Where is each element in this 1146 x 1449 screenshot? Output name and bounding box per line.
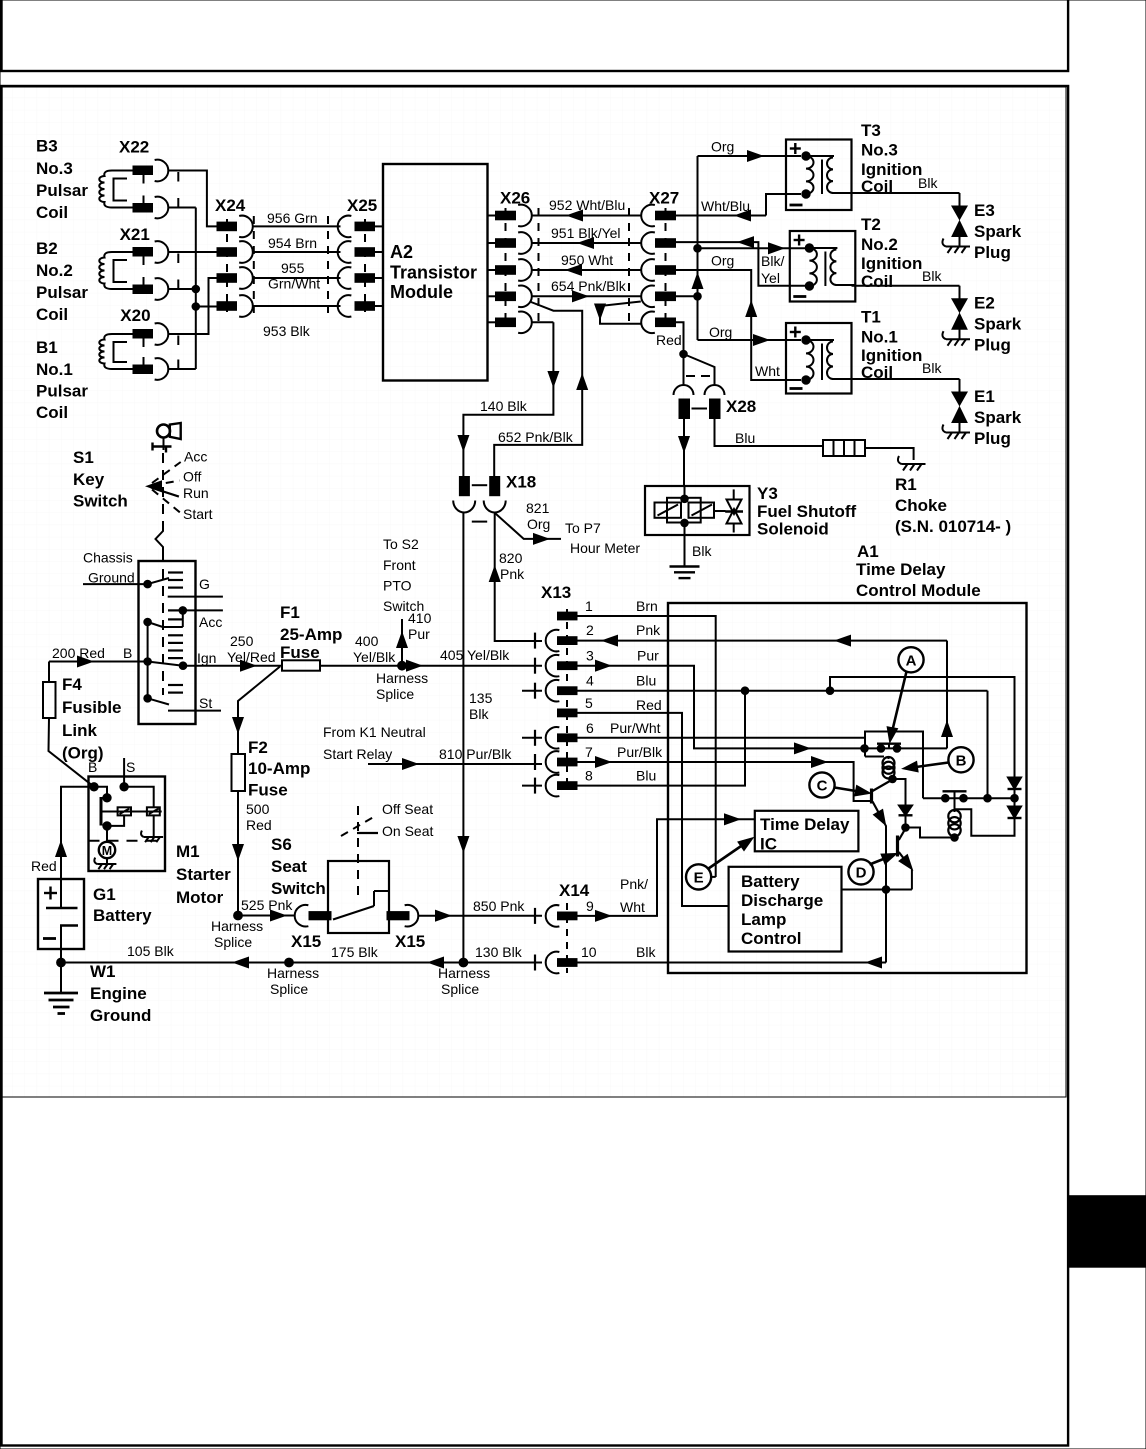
svg-text:B3: B3 <box>36 137 58 156</box>
svg-text:Choke: Choke <box>895 496 947 515</box>
svg-text:Wht/Blu: Wht/Blu <box>701 198 750 214</box>
svg-text:Org: Org <box>527 516 550 532</box>
svg-text:410: 410 <box>408 610 432 626</box>
svg-text:140 Blk: 140 Blk <box>480 398 528 414</box>
svg-text:G: G <box>199 576 210 592</box>
svg-text:Plug: Plug <box>974 429 1011 448</box>
svg-text:E1: E1 <box>974 387 995 406</box>
svg-text:Harness: Harness <box>267 965 319 981</box>
svg-text:Red: Red <box>31 858 57 874</box>
svg-text:405 Yel/Blk: 405 Yel/Blk <box>440 647 510 663</box>
svg-text:10: 10 <box>581 944 597 960</box>
svg-text:B: B <box>88 759 97 775</box>
svg-text:X28: X28 <box>726 397 756 416</box>
svg-text:Red: Red <box>656 332 682 348</box>
svg-text:Fuse: Fuse <box>280 643 320 662</box>
svg-text:No.3: No.3 <box>861 141 898 160</box>
svg-text:Spark: Spark <box>974 222 1022 241</box>
svg-text:Y3: Y3 <box>757 484 778 503</box>
svg-text:To P7: To P7 <box>565 520 601 536</box>
svg-text:654 Pnk/Blk: 654 Pnk/Blk <box>551 278 627 294</box>
svg-text:1: 1 <box>585 598 593 614</box>
svg-text:175 Blk: 175 Blk <box>331 944 379 960</box>
svg-text:Off Seat: Off Seat <box>382 801 433 817</box>
svg-text:No.2: No.2 <box>36 261 73 280</box>
svg-text:250: 250 <box>230 633 254 649</box>
svg-text:T1: T1 <box>861 308 881 327</box>
svg-text:850 Pnk: 850 Pnk <box>473 898 525 914</box>
svg-text:S1: S1 <box>73 448 94 467</box>
svg-text:F4: F4 <box>62 675 82 694</box>
svg-text:Splice: Splice <box>441 981 479 997</box>
svg-text:Engine: Engine <box>90 984 147 1003</box>
svg-text:X15: X15 <box>395 932 425 951</box>
svg-text:Fusible: Fusible <box>62 698 122 717</box>
svg-text:Blu: Blu <box>636 673 656 689</box>
svg-text:F2: F2 <box>248 738 268 757</box>
svg-text:On Seat: On Seat <box>382 823 433 839</box>
svg-text:652 Pnk/Blk: 652 Pnk/Blk <box>498 429 574 445</box>
svg-text:Switch: Switch <box>271 879 326 898</box>
svg-text:From K1 Neutral: From K1 Neutral <box>323 724 426 740</box>
svg-text:Harness: Harness <box>211 918 263 934</box>
svg-text:Pur/Blk: Pur/Blk <box>617 744 663 760</box>
svg-text:Harness: Harness <box>376 670 428 686</box>
svg-text:Front: Front <box>383 557 416 573</box>
svg-text:Pnk: Pnk <box>636 622 661 638</box>
svg-text:Plug: Plug <box>974 243 1011 262</box>
svg-text:Red: Red <box>246 817 272 833</box>
svg-text:X20: X20 <box>120 306 150 325</box>
svg-text:Splice: Splice <box>214 934 252 950</box>
svg-text:Motor: Motor <box>176 888 224 907</box>
svg-text:Pulsar: Pulsar <box>36 181 88 200</box>
svg-text:Ign: Ign <box>197 650 216 666</box>
svg-text:8: 8 <box>585 768 593 784</box>
svg-text:Fuel Shutoff: Fuel Shutoff <box>757 502 856 521</box>
svg-text:Pur/Wht: Pur/Wht <box>610 720 661 736</box>
svg-text:Hour Meter: Hour Meter <box>570 540 640 556</box>
svg-text:Red: Red <box>636 697 662 713</box>
svg-text:Battery: Battery <box>741 872 800 891</box>
svg-text:X15: X15 <box>291 932 321 951</box>
svg-text:820: 820 <box>499 550 523 566</box>
svg-text:Yel/Blk: Yel/Blk <box>353 649 396 665</box>
svg-text:Yel/Red: Yel/Red <box>227 649 276 665</box>
svg-text:No.3: No.3 <box>36 159 73 178</box>
svg-text:B1: B1 <box>36 338 58 357</box>
svg-text:950 Wht: 950 Wht <box>561 252 613 268</box>
svg-text:Pnk: Pnk <box>500 566 525 582</box>
svg-text:130 Blk: 130 Blk <box>475 944 523 960</box>
svg-text:X26: X26 <box>500 189 530 208</box>
svg-text:Link: Link <box>62 721 97 740</box>
svg-text:X24: X24 <box>215 196 246 215</box>
svg-text:Wht: Wht <box>620 899 645 915</box>
svg-text:Spark: Spark <box>974 315 1022 334</box>
svg-text:Chassis: Chassis <box>83 550 133 566</box>
svg-text:200 Red: 200 Red <box>52 645 105 661</box>
svg-text:135: 135 <box>469 690 493 706</box>
svg-text:T2: T2 <box>861 215 881 234</box>
svg-text:955: 955 <box>281 260 305 276</box>
svg-text:C: C <box>817 778 828 795</box>
svg-text:9: 9 <box>586 898 594 914</box>
svg-text:IC: IC <box>760 835 777 854</box>
svg-text:810 Pur/Blk: 810 Pur/Blk <box>439 746 512 762</box>
svg-text:Yel: Yel <box>761 270 780 286</box>
svg-text:Module: Module <box>390 282 453 302</box>
svg-text:400: 400 <box>355 633 379 649</box>
svg-text:10-Amp: 10-Amp <box>248 759 310 778</box>
svg-text:Org: Org <box>711 253 734 269</box>
svg-text:Control Module: Control Module <box>856 581 981 600</box>
svg-text:4: 4 <box>586 673 594 689</box>
svg-text:M1: M1 <box>176 842 200 861</box>
svg-text:Lamp: Lamp <box>741 910 786 929</box>
svg-text:Discharge: Discharge <box>741 891 823 910</box>
svg-text:S6: S6 <box>271 835 292 854</box>
svg-text:525 Pnk: 525 Pnk <box>241 897 293 913</box>
svg-text:X18: X18 <box>506 473 536 492</box>
svg-text:Blk: Blk <box>692 543 712 559</box>
svg-text:Time Delay: Time Delay <box>856 560 946 579</box>
svg-text:Pur: Pur <box>637 648 659 664</box>
svg-text:E2: E2 <box>974 294 995 313</box>
svg-text:E3: E3 <box>974 201 995 220</box>
svg-text:Harness: Harness <box>438 965 490 981</box>
svg-text:St: St <box>199 695 212 711</box>
svg-text:Start Relay: Start Relay <box>323 746 392 762</box>
svg-text:Blk: Blk <box>918 175 938 191</box>
svg-text:S: S <box>126 759 135 775</box>
svg-text:A1: A1 <box>857 542 879 561</box>
svg-text:No.1: No.1 <box>36 360 73 379</box>
svg-text:Spark: Spark <box>974 408 1022 427</box>
svg-text:F1: F1 <box>280 603 300 622</box>
svg-text:Brn: Brn <box>636 598 658 614</box>
svg-text:6: 6 <box>586 720 594 736</box>
svg-text:To S2: To S2 <box>383 536 419 552</box>
svg-text:Coil: Coil <box>36 403 68 422</box>
svg-text:Wht: Wht <box>755 363 780 379</box>
svg-text:Blk: Blk <box>469 706 489 722</box>
svg-text:Starter: Starter <box>176 865 231 884</box>
svg-text:G1: G1 <box>93 885 116 904</box>
svg-text:B: B <box>123 645 132 661</box>
svg-text:No.2: No.2 <box>861 235 898 254</box>
svg-text:Ground: Ground <box>90 1006 151 1025</box>
svg-text:B2: B2 <box>36 239 58 258</box>
svg-text:Blk: Blk <box>922 360 942 376</box>
svg-text:Blk/: Blk/ <box>761 253 784 269</box>
svg-text:R1: R1 <box>895 475 917 494</box>
svg-text:Blk: Blk <box>636 944 656 960</box>
svg-text:Control: Control <box>741 929 801 948</box>
svg-text:X21: X21 <box>120 225 150 244</box>
svg-text:Pulsar: Pulsar <box>36 382 88 401</box>
svg-text:Key: Key <box>73 470 105 489</box>
svg-text:Coil: Coil <box>36 203 68 222</box>
svg-text:X22: X22 <box>119 138 149 157</box>
svg-text:Plug: Plug <box>974 336 1011 355</box>
svg-text:Acc: Acc <box>184 449 207 465</box>
svg-text:Org: Org <box>711 139 734 155</box>
svg-text:Battery: Battery <box>93 906 152 925</box>
svg-text:Grn/Wht: Grn/Wht <box>268 276 320 292</box>
svg-text:952 Wht/Blu: 952 Wht/Blu <box>549 197 625 213</box>
svg-text:Start: Start <box>183 506 213 522</box>
svg-text:B: B <box>956 752 967 769</box>
svg-text:Splice: Splice <box>270 981 308 997</box>
svg-text:Blu: Blu <box>636 768 656 784</box>
svg-text:D: D <box>856 864 867 881</box>
svg-text:Transistor: Transistor <box>390 263 477 283</box>
svg-text:Switch: Switch <box>73 492 128 511</box>
svg-text:Pnk/: Pnk/ <box>620 876 648 892</box>
svg-text:Fuse: Fuse <box>248 781 288 800</box>
svg-text:Off: Off <box>183 469 202 485</box>
svg-text:Pulsar: Pulsar <box>36 283 88 302</box>
svg-text:954 Brn: 954 Brn <box>268 235 317 251</box>
svg-text:951 Blk/Yel: 951 Blk/Yel <box>551 225 621 241</box>
svg-text:500: 500 <box>246 801 270 817</box>
svg-text:956 Grn: 956 Grn <box>267 210 318 226</box>
svg-text:E: E <box>694 869 704 886</box>
svg-text:W1: W1 <box>90 962 116 981</box>
svg-text:Solenoid: Solenoid <box>757 520 829 539</box>
svg-text:Blu: Blu <box>735 430 755 446</box>
svg-text:A2: A2 <box>390 242 413 262</box>
svg-text:2: 2 <box>586 622 594 638</box>
svg-text:3: 3 <box>586 648 594 664</box>
svg-text:PTO: PTO <box>383 578 412 594</box>
svg-text:821: 821 <box>526 500 550 516</box>
svg-text:Coil: Coil <box>36 305 68 324</box>
svg-text:105 Blk: 105 Blk <box>127 943 175 959</box>
svg-text:Org: Org <box>709 324 732 340</box>
svg-text:Acc: Acc <box>199 614 222 630</box>
svg-text:5: 5 <box>585 695 593 711</box>
svg-text:Coil: Coil <box>861 272 893 291</box>
svg-text:Ignition: Ignition <box>861 254 922 273</box>
svg-text:Time Delay: Time Delay <box>760 815 850 834</box>
svg-text:T3: T3 <box>861 121 881 140</box>
svg-text:X25: X25 <box>347 196 377 215</box>
svg-text:M: M <box>102 844 112 858</box>
svg-text:Seat: Seat <box>271 857 307 876</box>
svg-text:(S.N. 010714- ): (S.N. 010714- ) <box>895 517 1011 536</box>
svg-text:Splice: Splice <box>376 686 414 702</box>
svg-text:X13: X13 <box>541 583 571 602</box>
svg-text:Blk: Blk <box>922 268 942 284</box>
svg-text:Run: Run <box>183 485 209 501</box>
svg-text:No.1: No.1 <box>861 328 898 347</box>
svg-text:7: 7 <box>585 744 593 760</box>
svg-text:953 Blk: 953 Blk <box>263 323 311 339</box>
svg-text:Pur: Pur <box>408 626 430 642</box>
svg-text:25-Amp: 25-Amp <box>280 625 342 644</box>
svg-text:A: A <box>906 652 917 669</box>
